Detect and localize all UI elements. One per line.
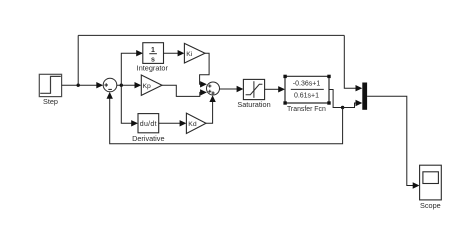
wire branch up to Integrator — [121, 53, 138, 85]
arrowhead Kd into S2 — [209, 95, 215, 102]
svg-text:Step: Step — [43, 97, 58, 106]
wire S1 output — [117, 84, 137, 86]
transfer fcn block — [285, 76, 329, 103]
sum junction S2 — [207, 82, 220, 95]
saturation block — [243, 79, 264, 99]
svg-text:Integrator: Integrator — [137, 63, 169, 72]
arrowhead feedback into S1 — [107, 92, 113, 99]
selection handle bottom-left — [283, 101, 286, 104]
wire top feedforward riser — [77, 35, 79, 85]
junction dot feedback — [341, 106, 344, 109]
wire Step output — [62, 84, 99, 86]
svg-text:Ki: Ki — [186, 51, 193, 58]
wire to Mux input 2 — [343, 103, 357, 108]
integrator block 1/s — [143, 43, 164, 64]
sum junction S1 — [103, 78, 117, 92]
wire Transfer Fcn output down — [329, 90, 343, 108]
gain Ki — [184, 43, 205, 63]
wire feedback loop — [110, 97, 343, 143]
junction dot after Step — [77, 84, 80, 87]
arrowhead Ki into S2 — [200, 81, 207, 87]
svg-text:Kd: Kd — [188, 121, 197, 128]
gain Kp — [141, 75, 162, 95]
gain Kd — [186, 113, 206, 133]
wire du/dt to Kd — [159, 122, 182, 124]
selection handle top-right — [327, 75, 330, 78]
arrowhead into Mux input 2 — [356, 100, 363, 106]
wire branch down to Derivative — [121, 85, 133, 123]
arrowhead into Transfer Fcn — [278, 86, 285, 92]
arrowhead into sum S1 — [96, 82, 103, 88]
arrowhead into Saturation — [237, 86, 244, 92]
scope block — [420, 165, 442, 200]
wire top run down to Mux — [344, 35, 357, 88]
wire Saturation to Transfer Fcn — [265, 88, 281, 90]
selection handle bottom-right — [327, 101, 330, 104]
arrowhead into gain Ki — [178, 50, 185, 56]
step source Step — [39, 74, 61, 96]
wire S2 to Saturation — [220, 88, 239, 90]
arrowhead Kp into S2 — [200, 89, 207, 95]
derivative block du/dt — [138, 114, 159, 133]
arrowhead into Mux input 1 — [356, 85, 363, 91]
arrowhead into Integrator — [136, 50, 143, 56]
wire Kp to sum S2 — [162, 85, 202, 96]
selection handle top-left — [283, 75, 286, 78]
svg-text:Transfer Fcn: Transfer Fcn — [287, 106, 326, 113]
svg-text:-0.36s+1: -0.36s+1 — [293, 80, 321, 87]
svg-text:Scope: Scope — [420, 201, 441, 210]
arrowhead into gain Kd — [180, 120, 187, 126]
svg-text:Derivative: Derivative — [132, 134, 164, 143]
wire Kd up to sum S2 — [206, 100, 213, 123]
wire Mux to Scope — [367, 96, 415, 185]
svg-text:du/dt: du/dt — [140, 121, 157, 128]
mux block — [362, 83, 367, 110]
junction dot after S1 — [120, 84, 123, 87]
svg-text:Kp: Kp — [143, 83, 152, 90]
wire top horizontal run — [78, 34, 344, 36]
arrowhead into gain Kp — [135, 82, 142, 88]
svg-text:Saturation: Saturation — [237, 100, 270, 109]
svg-text:0.61s+1: 0.61s+1 — [294, 92, 319, 99]
arrowhead into Derivative — [131, 120, 138, 126]
arrowhead into Scope — [413, 182, 420, 188]
wire Integrator to Ki — [164, 52, 180, 54]
wire Ki to sum S2 — [200, 53, 210, 84]
svg-text:1: 1 — [151, 47, 155, 54]
